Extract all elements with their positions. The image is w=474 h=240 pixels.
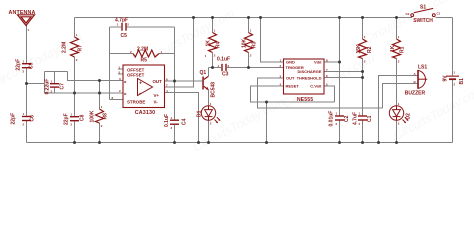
- svg-text:BC548: BC548: [211, 82, 217, 98]
- svg-text:D1: D1: [197, 110, 203, 117]
- wire R5 right lead: [159, 53, 175, 55]
- wire C5 right lead: [127, 26, 175, 28]
- wire control volt leg: [324, 86, 335, 102]
- wire top rail right of switch: [436, 17, 453, 19]
- wire D1 to bottom rail: [208, 121, 210, 143]
- svg-text:C8: C8: [80, 114, 86, 121]
- wire op-amp V- to bottom rail: [165, 93, 199, 143]
- svg-text:10K: 10K: [242, 38, 248, 48]
- svg-text:0.1uF: 0.1uF: [164, 114, 170, 127]
- wire jog down to op-amp plus line: [68, 72, 124, 81]
- svg-text:100K: 100K: [90, 110, 96, 122]
- capacitor C5 plates: [121, 23, 122, 31]
- wire R2 bottom to C1: [362, 59, 364, 116]
- svg-text:D2: D2: [406, 113, 412, 120]
- svg-text:OFFSET: OFFSET: [127, 73, 145, 78]
- svg-text:R8: R8: [103, 113, 109, 120]
- svg-text:22pF: 22pF: [16, 59, 22, 71]
- capacitor C7 plates: [50, 83, 59, 84]
- svg-text:Q1: Q1: [200, 70, 207, 76]
- svg-text:BUZZER: BUZZER: [405, 91, 426, 97]
- wire C2 to bottom rail: [339, 121, 341, 143]
- svg-text:R4: R4: [216, 41, 222, 48]
- wire op-amp minus line: [45, 92, 124, 94]
- svg-text:C2: C2: [344, 115, 350, 122]
- wire R8 to bottom rail: [99, 123, 101, 143]
- op-amp U1 label CA3130: [135, 110, 155, 116]
- wire bottom rail: [27, 142, 453, 144]
- wire threshold stub: [324, 77, 363, 79]
- svg-text:2.2M: 2.2M: [62, 42, 68, 53]
- wire R7 bottom to minus line: [74, 57, 76, 93]
- wire C8 to bottom rail: [74, 122, 76, 143]
- svg-text:2.2M: 2.2M: [137, 47, 148, 53]
- wire C3 right to trigger: [227, 67, 284, 69]
- capacitor C3 plates: [221, 64, 222, 71]
- svg-text:1K: 1K: [206, 40, 212, 47]
- wire R7 top: [74, 18, 76, 38]
- wire R8 vertical between input lines: [99, 81, 101, 110]
- svg-text:22pF: 22pF: [64, 113, 70, 125]
- NE555 label: [297, 97, 313, 103]
- wire buzzer bottom feed up: [383, 84, 418, 109]
- svg-text:THRESHOLD: THRESHOLD: [297, 76, 322, 81]
- wire antenna lead upper: [26, 26, 28, 64]
- svg-text:+: +: [139, 80, 142, 86]
- svg-text:RESET: RESET: [286, 84, 300, 89]
- svg-text:C4: C4: [182, 118, 188, 125]
- svg-text:C2: C2: [406, 12, 410, 16]
- capacitor C9 plates: [22, 63, 31, 64]
- resistor R8: [96, 109, 104, 123]
- wire R4 bottom: [212, 53, 214, 68]
- wire Q1 emitter down to D1: [208, 90, 210, 106]
- op-amp U1 box: [123, 65, 165, 108]
- wire op-amp V+ to top rail: [165, 18, 194, 88]
- svg-text:S1: S1: [420, 4, 426, 10]
- wire feedback right leg: [174, 27, 176, 81]
- wire C7 stem top: [54, 72, 56, 84]
- wire R3 top: [248, 18, 250, 33]
- svg-text:OUT: OUT: [286, 76, 295, 81]
- svg-text:C1: C1: [367, 115, 373, 122]
- wire buzzer top lead and ground return: [379, 76, 418, 143]
- svg-text:9V: 9V: [443, 75, 449, 82]
- LED D1: [201, 106, 220, 123]
- svg-text:0.01uF: 0.01uF: [329, 111, 335, 127]
- svg-text:V-: V-: [154, 100, 159, 105]
- capacitor C2 plates: [335, 115, 344, 116]
- svg-text:Vdd: Vdd: [314, 60, 322, 65]
- svg-text:C1: C1: [437, 11, 441, 15]
- resistor R1: [393, 39, 401, 59]
- wire NE555 gnd feed from rail: [261, 18, 284, 63]
- wire Vdd stub: [324, 61, 340, 63]
- wire antenna lead lower (C6 to rail): [26, 121, 28, 143]
- resistor R4: [209, 33, 217, 53]
- wire C1 to bottom rail: [362, 121, 364, 143]
- svg-text:SWITCH: SWITCH: [413, 18, 433, 24]
- svg-text:C6: C6: [30, 115, 36, 122]
- wire R1 bottom to D2: [396, 59, 398, 106]
- wire Q1 collector up: [208, 68, 210, 77]
- transistor Q1: [202, 76, 208, 90]
- wire antenna lead mid (C9 to C6): [26, 69, 28, 116]
- wire R5 left lead: [110, 53, 134, 55]
- svg-text:C.Volt: C.Volt: [310, 84, 322, 89]
- svg-text:GND: GND: [286, 59, 295, 64]
- svg-text:15K: 15K: [356, 44, 362, 54]
- wire R2 top: [362, 18, 364, 40]
- battery B1 plates: [446, 76, 459, 77]
- wire R4 top: [212, 18, 214, 33]
- resistor R7: [71, 37, 79, 57]
- svg-text:R3: R3: [252, 41, 258, 48]
- wire C4 to bottom rail: [174, 125, 176, 143]
- wire R3 bottom: [248, 53, 250, 68]
- resistor R5: [133, 50, 159, 57]
- wire op-amp out to Q1 base: [165, 80, 203, 82]
- capacitor C6 plates: [22, 116, 31, 117]
- svg-text:ANTENNA: ANTENNA: [9, 10, 36, 16]
- svg-text:R1: R1: [400, 46, 406, 53]
- svg-text:22pF: 22pF: [11, 113, 17, 125]
- wire C2 supply leg: [339, 18, 341, 116]
- wire strobe connection: [110, 99, 124, 101]
- wire op-amp offset stub 1: [118, 68, 123, 70]
- svg-text:C3: C3: [222, 72, 229, 78]
- svg-text:NE555: NE555: [297, 97, 313, 103]
- svg-text:0.1uF: 0.1uF: [217, 57, 230, 63]
- wire antenna tap to C7 block: [27, 83, 45, 85]
- svg-text:DISCHARGE: DISCHARGE: [297, 69, 321, 74]
- svg-text:C9: C9: [29, 62, 35, 69]
- wire right edge down to battery: [452, 18, 454, 76]
- resistor R2: [359, 39, 367, 59]
- svg-text:OUT: OUT: [153, 79, 163, 84]
- wire feedback left leg: [109, 27, 111, 100]
- capacitor C1 plates: [358, 115, 367, 116]
- wire collector rail to NE555 trigger: [209, 67, 222, 69]
- wire C7 left vertical: [44, 72, 46, 94]
- wire D2 to bottom rail: [396, 121, 398, 143]
- svg-text:C5: C5: [121, 33, 128, 39]
- wire R1 top: [396, 18, 398, 40]
- svg-text:B1: B1: [459, 78, 465, 85]
- LED D2: [389, 106, 408, 123]
- wire C7 top: [45, 71, 68, 73]
- antenna: [18, 15, 35, 26]
- svg-text:V+: V+: [154, 93, 160, 98]
- wire reset line ground tap: [266, 102, 268, 143]
- svg-text:STROBE: STROBE: [127, 100, 145, 105]
- svg-text:C7: C7: [60, 83, 66, 90]
- svg-text:R7: R7: [78, 45, 84, 52]
- buzzer LS1: [417, 70, 427, 89]
- watermark: [0, 0, 474, 155]
- wire NE555 out routed under ic: [258, 78, 383, 108]
- wire NE555 reset routed under ic: [251, 86, 335, 102]
- wire top rail: [75, 17, 413, 19]
- svg-text:CA3130: CA3130: [135, 110, 155, 116]
- wire C4 top leg: [174, 81, 176, 120]
- battery B1 leads already drawn; text labels below: [9, 4, 466, 127]
- svg-text:1K: 1K: [390, 45, 396, 52]
- capacitor C8 plates: [70, 116, 79, 117]
- svg-text:R5: R5: [141, 58, 148, 64]
- switch S1: [411, 8, 435, 16]
- wire battery to bottom rail: [452, 80, 454, 143]
- svg-text:R2: R2: [367, 46, 373, 53]
- wire op-amp offset stub 5: [118, 73, 123, 75]
- NE555 U2 box: [284, 59, 325, 94]
- wire C5 left lead: [110, 26, 122, 28]
- resistor R3: [245, 33, 253, 53]
- svg-text:LS1: LS1: [418, 65, 427, 71]
- wire C7 stem bottom: [54, 88, 56, 94]
- capacitor C4 plates: [170, 120, 179, 121]
- wire minus line down to C8: [74, 93, 76, 116]
- wire discharge stub: [324, 71, 363, 73]
